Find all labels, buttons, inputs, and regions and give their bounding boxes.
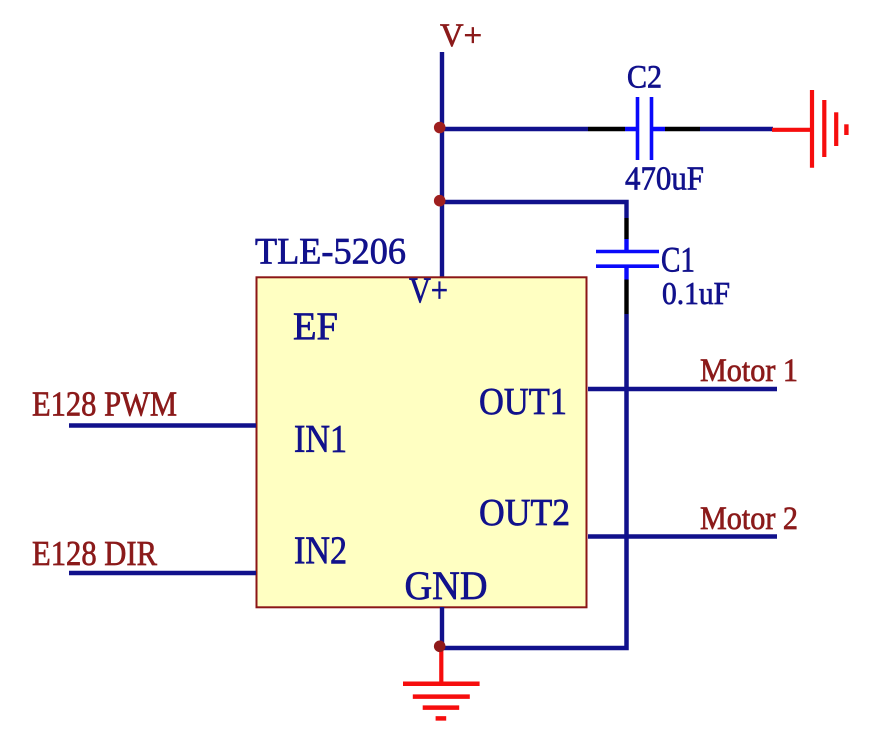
IC U1 TLE-5206 body <box>257 277 587 607</box>
junction dot at V+/C2 <box>434 122 446 134</box>
svg-text:OUT1: OUT1 <box>479 381 567 423</box>
svg-text:470uF: 470uF <box>625 161 704 198</box>
wire OUT2 <box>588 534 777 539</box>
svg-text:TLE-5206: TLE-5206 <box>255 230 406 271</box>
capacitor C2 <box>625 97 665 160</box>
wire C1 top <box>442 202 627 218</box>
svg-text:V+: V+ <box>440 18 482 54</box>
junction dot at GND net <box>434 641 446 653</box>
svg-text:OUT2: OUT2 <box>479 492 570 534</box>
ground symbol bottom (red) <box>403 648 480 718</box>
wire GND pin down <box>440 607 444 646</box>
svg-text:0.1uF: 0.1uF <box>662 276 730 311</box>
svg-text:V+: V+ <box>409 270 448 310</box>
pin lead C1 pin1 (black) <box>624 218 628 239</box>
wire V+ vertical <box>440 52 444 277</box>
svg-text:E128 PWM: E128 PWM <box>32 385 177 424</box>
svg-text:IN1: IN1 <box>294 418 347 461</box>
pin lead C2 pin1 (black) <box>588 127 625 132</box>
junction dot at V+/C1 <box>434 195 446 207</box>
earth ground right (red) <box>772 90 846 168</box>
wire IN1 <box>69 423 256 427</box>
wire C1 down to ground net <box>442 314 627 648</box>
wire OUT1 <box>588 387 777 392</box>
capacitor C1 <box>596 239 659 280</box>
svg-text:EF: EF <box>293 305 338 348</box>
svg-text:IN2: IN2 <box>294 529 347 572</box>
pin lead C2 pin2 (black) <box>665 127 700 132</box>
svg-text:GND: GND <box>405 563 488 608</box>
svg-text:C2: C2 <box>627 59 662 95</box>
svg-text:E128 DIR: E128 DIR <box>32 534 158 573</box>
svg-text:C1: C1 <box>661 240 695 280</box>
wire C2 left <box>442 127 588 132</box>
pin lead C1 pin2 (black) <box>624 280 628 315</box>
wire C2 to ground <box>700 127 773 132</box>
wire IN2 <box>69 571 256 575</box>
svg-text:Motor 2: Motor 2 <box>700 501 798 537</box>
svg-text:Motor 1: Motor 1 <box>700 353 798 389</box>
